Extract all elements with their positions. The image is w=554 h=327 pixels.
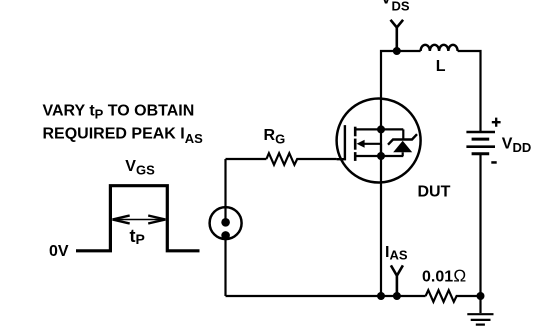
wire right side down xyxy=(479,155,481,297)
svg-text:L: L xyxy=(436,58,446,75)
wire top rail left xyxy=(381,51,421,296)
svg-text:VARY tP TO OBTAIN: VARY tP TO OBTAIN xyxy=(43,102,195,121)
node VDS junction dot xyxy=(393,47,401,55)
pulse generator wire upper xyxy=(224,159,226,222)
MOSFET body arrow jog xyxy=(380,144,382,156)
tP width arrow xyxy=(112,216,165,224)
body diode triangle xyxy=(393,141,412,153)
node VDD-rail dot xyxy=(477,292,485,300)
MOSFET channel segment middle xyxy=(354,139,357,150)
MOSFET drain stub xyxy=(355,128,403,130)
body diode cathode lead xyxy=(402,129,404,139)
ground symbol xyxy=(467,314,493,324)
svg-text:0.01Ω: 0.01Ω xyxy=(422,267,466,286)
pulse generator bottom dot xyxy=(221,231,230,240)
label - xyxy=(491,161,496,164)
body diode cathode bar (zener) xyxy=(388,134,417,145)
svg-text:0V: 0V xyxy=(49,243,69,260)
IAS probe xyxy=(391,265,403,296)
MOSFET channel segment bottom xyxy=(354,152,357,161)
body diode anode lead xyxy=(402,152,404,156)
label + xyxy=(492,118,501,127)
ground lead xyxy=(479,296,481,313)
VGS pulse waveform xyxy=(76,186,200,251)
MOSFET gate lead xyxy=(337,125,345,159)
wire top rail right xyxy=(458,51,481,131)
node source dot xyxy=(377,152,385,160)
node drain dot xyxy=(377,125,385,133)
resistor 0.01 ohm xyxy=(426,290,481,302)
pulse generator wire lower xyxy=(224,235,226,296)
MOSFET body arrow head xyxy=(357,140,365,148)
inductor L xyxy=(421,45,458,51)
MOSFET body arrow shaft xyxy=(362,143,381,145)
MOSFET channel segment top xyxy=(354,127,357,137)
MOSFET source stub xyxy=(355,155,403,157)
svg-text:IAS: IAS xyxy=(385,244,408,263)
pulse generator center dot xyxy=(221,218,230,227)
node IAS junction dot xyxy=(393,292,401,300)
VDS probe xyxy=(391,20,404,51)
svg-text:DUT: DUT xyxy=(418,184,451,201)
pulse generator circle xyxy=(210,207,242,239)
node source-rail dot xyxy=(377,292,385,300)
wire gate xyxy=(226,158,267,160)
resistor RG xyxy=(266,153,336,165)
wire bottom rail xyxy=(226,295,426,297)
MOSFET DUT circle xyxy=(337,99,421,183)
battery VDD xyxy=(466,132,495,154)
